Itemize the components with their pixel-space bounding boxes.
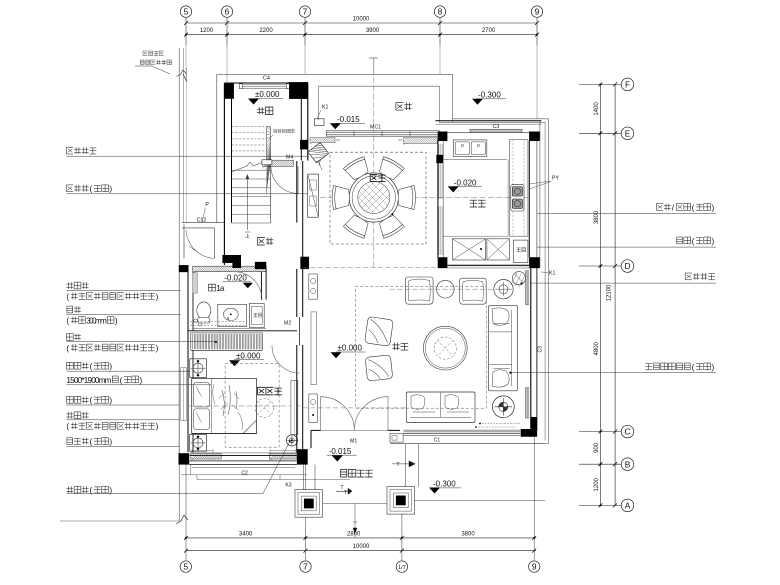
svg-text:3800: 3800 — [461, 531, 475, 537]
svg-text:-0.015: -0.015 — [329, 447, 352, 456]
toilet — [194, 302, 211, 326]
svg-text:1a: 1a — [216, 284, 225, 293]
svg-text:5: 5 — [184, 7, 189, 17]
svg-text:1400: 1400 — [594, 102, 600, 116]
svg-text:10000: 10000 — [353, 17, 370, 23]
svg-text:-0.020: -0.020 — [224, 274, 247, 283]
left label 床头柜 bedside cabinet — [66, 438, 179, 447]
bathroom right wall and door arc — [234, 266, 266, 299]
svg-text:5: 5 — [183, 562, 188, 572]
svg-text:PY: PY — [552, 176, 559, 182]
right label 餐台/餐椅 dining set — [537, 203, 716, 213]
kitchen walls and window C3 — [435, 121, 541, 268]
svg-text:E: E — [625, 128, 631, 138]
svg-text:K3: K3 — [285, 483, 291, 489]
PY flue label — [529, 176, 559, 190]
wardrobe hatched 衣柜 — [191, 333, 263, 350]
svg-text:C4: C4 — [263, 76, 270, 82]
door M4 with sill — [262, 155, 298, 194]
left label 装饰柜 deco cabinet — [66, 282, 181, 301]
K1 box near storage wall — [314, 105, 328, 126]
svg-text:): ) — [156, 292, 159, 301]
svg-text:1500*1900mm: 1500*1900mm — [66, 376, 111, 385]
living carpet big dashed rect — [355, 287, 486, 409]
left label 餐边柜 sideboard — [66, 185, 307, 194]
entry elevation -0.015 — [327, 447, 357, 462]
right grid bubbles and dimension lines — [579, 78, 634, 512]
bedroom / living divider wall with door M2 — [272, 161, 309, 452]
owner note top-left — [135, 51, 172, 74]
armchair axis dashed — [390, 288, 512, 290]
svg-text:F: F — [625, 80, 630, 90]
floor lamp big circle — [492, 396, 514, 418]
bedroom dashed ceiling lamp circle — [188, 399, 300, 418]
svg-text:MC1: MC1 — [370, 125, 381, 131]
svg-text:(: ( — [692, 203, 695, 212]
bedroom elevation ±0.000 — [229, 351, 264, 366]
stair lower flight treads — [232, 159, 271, 239]
svg-text:T: T — [344, 490, 347, 496]
top grid bubbles and dimension lines — [180, 6, 542, 45]
west wall cabinets living side — [309, 274, 318, 422]
dining room label 餐厅 — [370, 174, 385, 181]
window C12 and lobby below stairs — [182, 202, 224, 258]
right label 冰箱 fridge — [537, 237, 716, 247]
svg-text:C3: C3 — [493, 124, 500, 130]
beam dashed line between dining and living — [303, 266, 529, 267]
curtain hatch strips — [310, 138, 437, 145]
svg-text:): ) — [109, 362, 112, 371]
plant pot with crosshair — [494, 280, 513, 299]
storage room label 储藏 — [257, 107, 273, 115]
storage elevation ±0.000 — [248, 90, 283, 105]
svg-text:M2: M2 — [284, 321, 291, 327]
bathroom bottom wall — [188, 329, 297, 331]
porch elevation -0.300 — [429, 480, 461, 494]
svg-text:(: ( — [90, 185, 93, 194]
svg-text:(: ( — [66, 316, 69, 325]
svg-text:6: 6 — [225, 7, 230, 17]
side table round — [437, 280, 455, 298]
platform elevation -0.300 — [472, 91, 506, 105]
svg-text:3800: 3800 — [594, 210, 600, 224]
svg-text:T: T — [397, 462, 400, 468]
left label 夜灯 night lamp — [66, 306, 181, 325]
TV cabinet bottom with lamp — [190, 435, 207, 452]
svg-text:): ) — [109, 396, 112, 405]
bathroom left window band — [188, 265, 197, 331]
curtain dashed note — [475, 423, 520, 428]
sliding door MC1 — [326, 125, 439, 137]
svg-text:): ) — [109, 185, 112, 194]
svg-text:(: ( — [66, 422, 69, 431]
svg-text:): ) — [156, 422, 159, 431]
porch connecting lines — [323, 490, 545, 538]
entry double door M1 — [311, 397, 400, 445]
svg-text:3400: 3400 — [239, 531, 253, 537]
svg-text:10000: 10000 — [353, 544, 370, 550]
left label 电视柜 tv cabinet 1 — [66, 362, 189, 371]
stair upper flight treads — [232, 127, 271, 195]
svg-text:(: ( — [66, 292, 69, 301]
svg-text:(: ( — [120, 376, 123, 385]
svg-text:M1: M1 — [350, 439, 357, 445]
svg-text:C1: C1 — [434, 438, 441, 444]
svg-text:K1: K1 — [322, 105, 328, 111]
kitchen elevation -0.020 — [448, 178, 482, 192]
svg-text:(: ( — [66, 344, 69, 353]
living elevation ±0.000 — [331, 344, 366, 359]
south two-seat sofa — [406, 392, 475, 423]
bathroom vanity counter with basin — [190, 304, 247, 326]
tilted accent chair 1 — [365, 317, 394, 347]
bedroom bottom wall with window C2 and bedside hatches — [179, 449, 308, 476]
svg-text:): ) — [712, 363, 715, 372]
svg-text:9: 9 — [532, 562, 537, 572]
dining chairs x6 — [332, 155, 415, 239]
svg-text:(: ( — [90, 396, 93, 405]
svg-text:3900: 3900 — [366, 28, 380, 34]
svg-text:±0.000: ±0.000 — [255, 90, 280, 99]
center tick on platform top — [369, 58, 378, 75]
dining table round — [340, 173, 408, 222]
TV cabinet top with lamp — [190, 359, 207, 378]
stair hall label 梯间 — [257, 238, 273, 246]
svg-text:1200: 1200 — [594, 477, 600, 491]
svg-text:C3: C3 — [538, 346, 544, 353]
svg-text:C2: C2 — [241, 471, 248, 477]
svg-text:7: 7 — [303, 562, 308, 572]
porch column 2 — [387, 487, 415, 514]
svg-text:1/7: 1/7 — [398, 565, 406, 571]
entry porch label 入口门廊 — [341, 470, 373, 478]
storage room walls — [224, 76, 307, 265]
AC unit rotated with hatch (dining corner) — [308, 142, 334, 170]
bathroom washer/shower box — [249, 304, 264, 328]
platform label 平台 — [396, 103, 412, 111]
terrace outline — [217, 74, 549, 443]
porch column 1 — [295, 490, 323, 518]
svg-text:±0.000: ±0.000 — [338, 344, 363, 353]
svg-text:(: ( — [692, 237, 695, 246]
svg-text:P: P — [205, 202, 209, 208]
stair note 三角压顶箱 — [269, 129, 295, 140]
left label 落地灯 floor lamp — [66, 441, 290, 495]
right label 空调柜机 AC — [531, 273, 716, 283]
svg-text:2800: 2800 — [347, 531, 361, 537]
svg-text:(: ( — [90, 362, 93, 371]
round carpet with inner dashed circle — [423, 326, 467, 370]
svg-text:C: C — [624, 427, 630, 437]
main sofa (east) — [489, 305, 518, 390]
svg-text:): ) — [712, 203, 715, 212]
AC fan circle with hatch — [511, 272, 526, 287]
svg-text:): ) — [109, 438, 112, 447]
terrace steps below bedroom — [60, 464, 350, 521]
bedroom right wall strip cabinet — [291, 381, 298, 444]
grid extension lines — [186, 45, 537, 119]
svg-text:M4: M4 — [286, 155, 293, 161]
bottom grid bubbles and dimension lines — [180, 437, 540, 572]
armchair 1 — [405, 277, 433, 304]
living south wall sliding tracks — [390, 430, 545, 443]
svg-text:300mm: 300mm — [86, 316, 107, 325]
svg-text:9: 9 — [535, 7, 540, 17]
svg-text:): ) — [712, 237, 715, 246]
bedroom left wall window band — [179, 265, 193, 461]
svg-text:D: D — [624, 261, 630, 271]
svg-text:1200: 1200 — [200, 28, 214, 34]
porch outline lines — [285, 430, 418, 494]
sofa axis dashed to wall — [303, 407, 406, 409]
svg-text:900: 900 — [594, 442, 600, 453]
svg-text:-0.300: -0.300 — [433, 480, 456, 489]
armchair 2 — [460, 278, 487, 304]
left label 空调柜机 AC unit — [66, 147, 309, 156]
svg-text:7: 7 — [303, 7, 308, 17]
sideboard 餐边柜 on stair wall — [308, 174, 319, 217]
floor lamp symbol — [286, 435, 297, 446]
black column left of bathroom top — [179, 265, 188, 272]
svg-text:2200: 2200 — [259, 28, 273, 34]
platform elevation -0.015 — [330, 115, 365, 129]
svg-text:-0.015: -0.015 — [337, 115, 360, 124]
svg-text:-0.300: -0.300 — [478, 91, 501, 100]
kitchen bottom cabinets with X — [453, 239, 528, 263]
tilted accent chair 2 — [365, 355, 393, 381]
dining carpet dashed square with axes — [320, 60, 530, 268]
left label 电视柜 tv cabinet 2 — [66, 396, 179, 405]
svg-text:-0.020: -0.020 — [454, 178, 477, 187]
svg-text:(: ( — [692, 363, 695, 372]
bedroom label 老人房 — [258, 387, 282, 395]
svg-text:A: A — [625, 501, 631, 511]
svg-text:±0.000: ±0.000 — [236, 351, 261, 360]
svg-text:上: 上 — [245, 233, 250, 239]
left neighbour axis line with break marks — [176, 48, 188, 524]
svg-text:K1: K1 — [549, 271, 555, 277]
svg-text:(: ( — [90, 438, 93, 447]
bathroom elevation -0.020 — [223, 274, 253, 289]
kitchen label 厨房 — [470, 200, 486, 207]
svg-text:C12: C12 — [197, 218, 207, 224]
bathroom label 卫1a — [209, 284, 225, 293]
living room label 客厅 — [392, 343, 408, 351]
right label 沙发茶几组合 sofa set — [509, 363, 716, 374]
svg-text:B: B — [625, 459, 631, 469]
svg-text:): ) — [156, 344, 159, 353]
svg-text:8: 8 — [438, 7, 443, 17]
left label 衣柜 wardrobe — [66, 334, 216, 353]
svg-text:2700: 2700 — [482, 28, 496, 34]
kitchen counters and floor outline — [443, 140, 528, 237]
left label 床 bed — [66, 376, 211, 385]
living room east wall with windows C3 — [521, 268, 544, 437]
kitchen sink double basin — [453, 140, 487, 157]
bedroom carpet dashed rect — [225, 364, 279, 448]
K1 label right of kitchen — [541, 271, 555, 277]
svg-text:): ) — [115, 316, 118, 325]
bed 1500x1900 with pillows — [192, 379, 257, 434]
bathroom top wall with hatch and black corner — [193, 255, 266, 273]
svg-text:): ) — [140, 376, 143, 385]
left label 装饰柜 deco cabinet 2 — [66, 412, 179, 431]
svg-text:12100: 12100 — [607, 284, 613, 301]
svg-text:4800: 4800 — [594, 341, 600, 355]
